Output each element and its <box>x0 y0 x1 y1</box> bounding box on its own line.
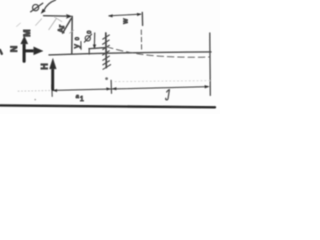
support hatch ticks <box>103 35 110 39</box>
moment M arrow (vertical thick, up) <box>23 44 26 62</box>
svg-text:1: 1 <box>80 96 84 103</box>
support (clamped wall) vertical line <box>105 33 108 68</box>
label phi0 (rotated) <box>85 36 90 41</box>
label phi (rotated) <box>33 5 39 11</box>
tilted arm faint stroke 2 <box>36 19 42 26</box>
faint ghost dotted line left of dim <box>18 90 51 93</box>
middle tick <box>110 80 112 93</box>
svg-text:0: 0 <box>87 31 93 34</box>
w right arrowhead <box>137 13 141 16</box>
svg-text:M: M <box>22 29 32 37</box>
step riser <box>88 49 90 55</box>
svg-text:Ar: Ar <box>57 24 66 32</box>
arrowhead right of Delta-r line <box>66 14 72 18</box>
faint dot under dim line <box>34 99 36 101</box>
w extension dashed line <box>140 30 142 51</box>
tilted arm faint stroke 3 <box>54 17 62 22</box>
w left arrowhead <box>108 14 112 17</box>
tilted arm line (solid upper part) <box>63 18 72 33</box>
arrow into middle tick from right <box>112 87 117 90</box>
svg-text:y: y <box>72 44 81 48</box>
arrowhead of arc <box>41 9 46 14</box>
arrow into middle tick from left <box>106 88 111 91</box>
edge speck left <box>0 50 2 54</box>
dimension line Delta-r (top) <box>44 15 71 18</box>
tilted arm faint stroke 1 <box>49 19 56 30</box>
right end arrowhead <box>205 85 210 88</box>
svg-text:w: w <box>123 18 130 25</box>
svg-text:H: H <box>39 63 49 70</box>
svg-text:0: 0 <box>75 37 81 40</box>
w dimension line <box>109 14 141 16</box>
faint stroke above y0 <box>70 30 74 33</box>
angle arc phi <box>44 0 56 10</box>
w end tick <box>141 12 143 25</box>
bottom dimension line <box>52 87 208 91</box>
beam (main horizontal member) <box>49 52 211 55</box>
bottom border line <box>0 105 215 107</box>
faint speck upper left <box>17 23 21 27</box>
force H arrow (vertical thick, up) <box>51 69 54 90</box>
speck below support <box>105 77 108 80</box>
force N arrow (horizontal thick) <box>25 49 35 52</box>
arrow into left tick <box>53 89 58 92</box>
label l (script ell) <box>166 90 170 100</box>
left tick <box>51 85 53 96</box>
svg-text:N: N <box>9 46 19 53</box>
faint scan band right <box>115 81 212 82</box>
vertical rigid arm (mast) <box>71 16 73 53</box>
phi0 leader arrow (down) <box>93 33 95 46</box>
small tick right of y0 <box>80 42 82 50</box>
dashed deflection curve <box>107 47 211 57</box>
right end extension line <box>209 33 212 95</box>
offset step line above beam <box>89 48 106 49</box>
